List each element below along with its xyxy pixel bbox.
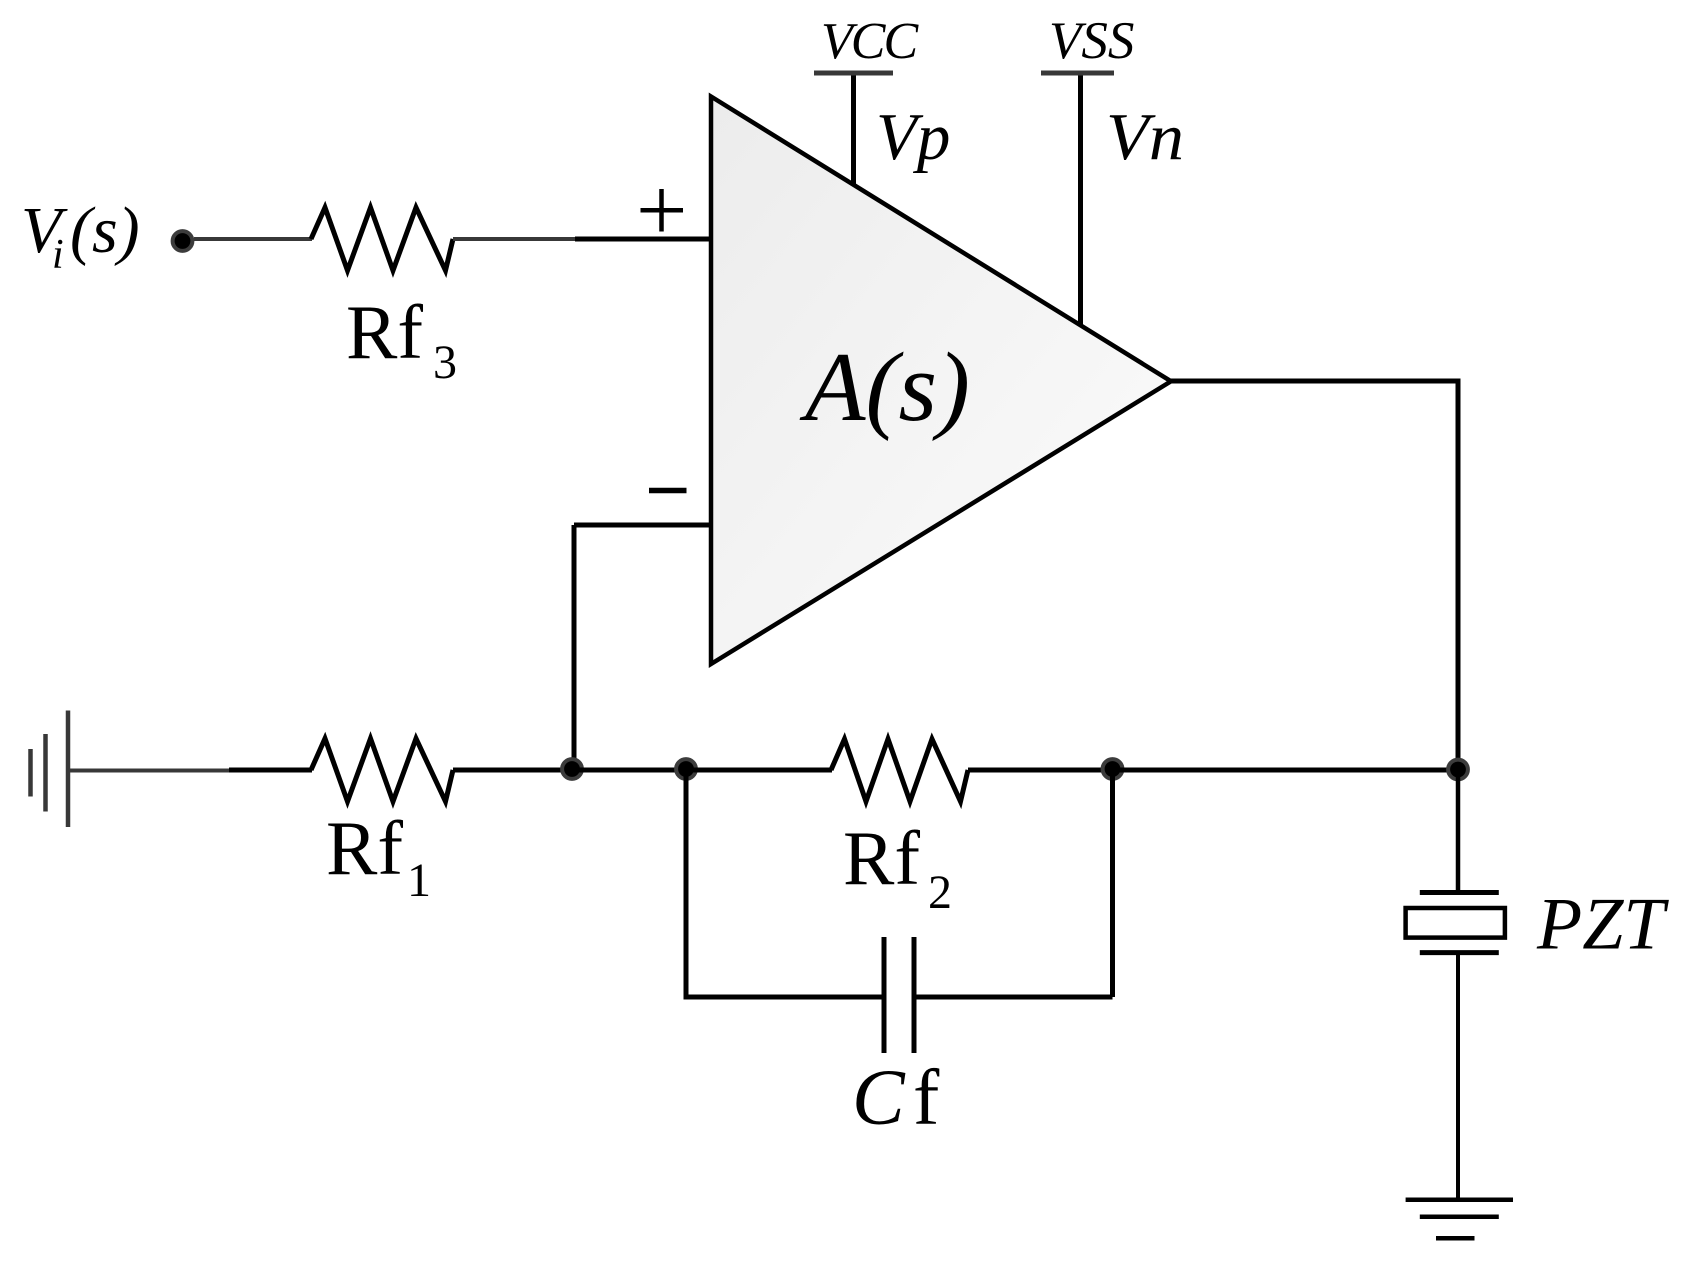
svg-text:Rf: Rf bbox=[346, 289, 423, 375]
PZT crystal top electrode bbox=[1420, 890, 1499, 895]
label Vn bbox=[1106, 100, 1184, 174]
svg-text:C: C bbox=[852, 1055, 906, 1142]
svg-text:1: 1 bbox=[407, 854, 431, 907]
svg-text:i: i bbox=[52, 232, 64, 278]
wire ground to Rf1 bbox=[68, 769, 232, 773]
wire Vi(s) to Rf3 bbox=[194, 237, 312, 241]
node A bbox=[562, 759, 582, 779]
wire Rf3 to + input (gray then black) bbox=[453, 237, 578, 241]
label Rf3 bbox=[346, 289, 457, 389]
svg-text:Vn: Vn bbox=[1106, 100, 1184, 174]
label Rf1 bbox=[326, 805, 431, 907]
svg-text:(s): (s) bbox=[70, 194, 140, 267]
wire VSS stem bbox=[1078, 76, 1083, 326]
svg-text:PZT: PZT bbox=[1536, 884, 1669, 966]
label PZT bbox=[1536, 884, 1669, 966]
wire Cf branch left bbox=[686, 995, 884, 1000]
wire Rf2 to node C bbox=[968, 768, 1113, 773]
wire Cf branch right bbox=[914, 995, 1113, 1000]
PZT crystal bottom electrode bbox=[1420, 950, 1499, 955]
PZT crystal body bbox=[1406, 908, 1505, 938]
label A(s) bbox=[799, 333, 970, 442]
resistor Rf1 bbox=[311, 739, 453, 802]
label Rf2 bbox=[843, 815, 952, 919]
capacitor Cf left plate bbox=[882, 937, 887, 1053]
wire feedback vertical bbox=[572, 525, 577, 769]
wire up to node C bbox=[1110, 770, 1115, 997]
node Vi(s) input terminal bbox=[173, 231, 193, 251]
VSS terminal bbox=[1049, 12, 1134, 70]
wire node A to node B bbox=[572, 768, 686, 773]
label Cf bbox=[852, 1055, 940, 1142]
node Vi(s) label bbox=[21, 194, 140, 278]
svg-text:f: f bbox=[913, 1055, 940, 1142]
node D output junction bbox=[1448, 760, 1468, 780]
svg-text:Rf: Rf bbox=[843, 815, 920, 901]
wire node B down to Cf branch bbox=[684, 770, 689, 1000]
node B bbox=[676, 759, 696, 779]
wire - input bbox=[574, 523, 711, 528]
ground bottom right bbox=[1406, 1200, 1513, 1239]
VCC terminal bbox=[821, 13, 919, 70]
wire output bbox=[1171, 379, 1461, 384]
resistor Rf3 bbox=[311, 208, 453, 271]
svg-text:A(s): A(s) bbox=[799, 333, 970, 442]
wire output node down to PZT bbox=[1456, 770, 1461, 893]
wire node C to output node bbox=[1113, 768, 1459, 773]
wire node B to Rf2 bbox=[686, 768, 832, 773]
plus sign bbox=[641, 189, 684, 232]
minus sign bbox=[649, 488, 687, 494]
capacitor Cf right plate bbox=[912, 937, 917, 1053]
wire PZT to ground bbox=[1456, 953, 1460, 1200]
wire VCC stem bbox=[851, 76, 856, 186]
ground left bbox=[31, 711, 69, 828]
node C bbox=[1103, 759, 1123, 779]
op-amp A(s) bbox=[711, 97, 1171, 665]
svg-text:2: 2 bbox=[928, 866, 952, 919]
svg-text:Rf: Rf bbox=[326, 805, 403, 891]
label Vp bbox=[876, 100, 950, 174]
svg-text:3: 3 bbox=[433, 336, 457, 389]
resistor Rf2 bbox=[831, 739, 968, 802]
svg-text:VCC: VCC bbox=[821, 13, 919, 70]
wire Rf1 to node A bbox=[453, 768, 572, 773]
svg-text:Vp: Vp bbox=[876, 100, 950, 174]
svg-text:VSS: VSS bbox=[1049, 12, 1134, 70]
